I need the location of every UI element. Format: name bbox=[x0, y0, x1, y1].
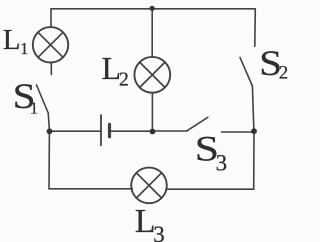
label L3 bbox=[135, 203, 165, 242]
wire S3 right contact bbox=[222, 131, 255, 133]
svg-text:L: L bbox=[3, 24, 21, 56]
label S2 bbox=[259, 43, 288, 84]
svg-text:3: 3 bbox=[216, 150, 228, 175]
wire top horizontal bbox=[51, 8, 255, 10]
wire top-right vertical (to S2 top contact) bbox=[254, 9, 257, 47]
node junction center (L2 / battery / S3) bbox=[150, 129, 156, 135]
node junction left (S1 / battery / bottom loop) bbox=[47, 128, 53, 134]
label L1 bbox=[3, 24, 29, 58]
svg-text:2: 2 bbox=[119, 69, 129, 91]
svg-text:3: 3 bbox=[153, 222, 165, 242]
lamp L1 bbox=[33, 27, 68, 62]
lamp L2 bbox=[134, 57, 170, 93]
label L2 bbox=[102, 50, 129, 91]
lamp L3 bbox=[131, 168, 167, 204]
node junction right (S2 / S3 / bottom loop) bbox=[251, 128, 257, 134]
wire L1 bottom lead bbox=[50, 63, 52, 75]
wire right vertical lower bbox=[253, 131, 255, 189]
svg-text:2: 2 bbox=[279, 63, 288, 84]
label S1 bbox=[13, 76, 39, 118]
node junction top (L2 / top wire) bbox=[150, 6, 155, 11]
svg-text:1: 1 bbox=[20, 39, 29, 58]
wire S2 to right junction bbox=[252, 86, 254, 131]
wire L2 top lead bbox=[151, 9, 153, 58]
wire battery to center junction bbox=[111, 130, 153, 132]
wire center junction to S3 bbox=[153, 130, 188, 132]
wire bottom-right horizontal bbox=[166, 188, 254, 190]
wire bottom-left horizontal bbox=[49, 188, 132, 190]
switch S3 bbox=[187, 117, 208, 131]
wire left vertical lower bbox=[48, 131, 50, 189]
svg-text:1: 1 bbox=[30, 99, 39, 118]
battery bbox=[101, 115, 110, 145]
wire L1 top lead bbox=[50, 9, 52, 28]
wire L2 bottom lead bbox=[151, 93, 153, 132]
label S3 bbox=[195, 129, 228, 176]
switch S2 bbox=[240, 57, 252, 86]
wire S1 to junction bbox=[48, 113, 49, 131]
wire middle-left (junction to battery) bbox=[50, 130, 101, 132]
switch S1 bbox=[37, 85, 49, 113]
